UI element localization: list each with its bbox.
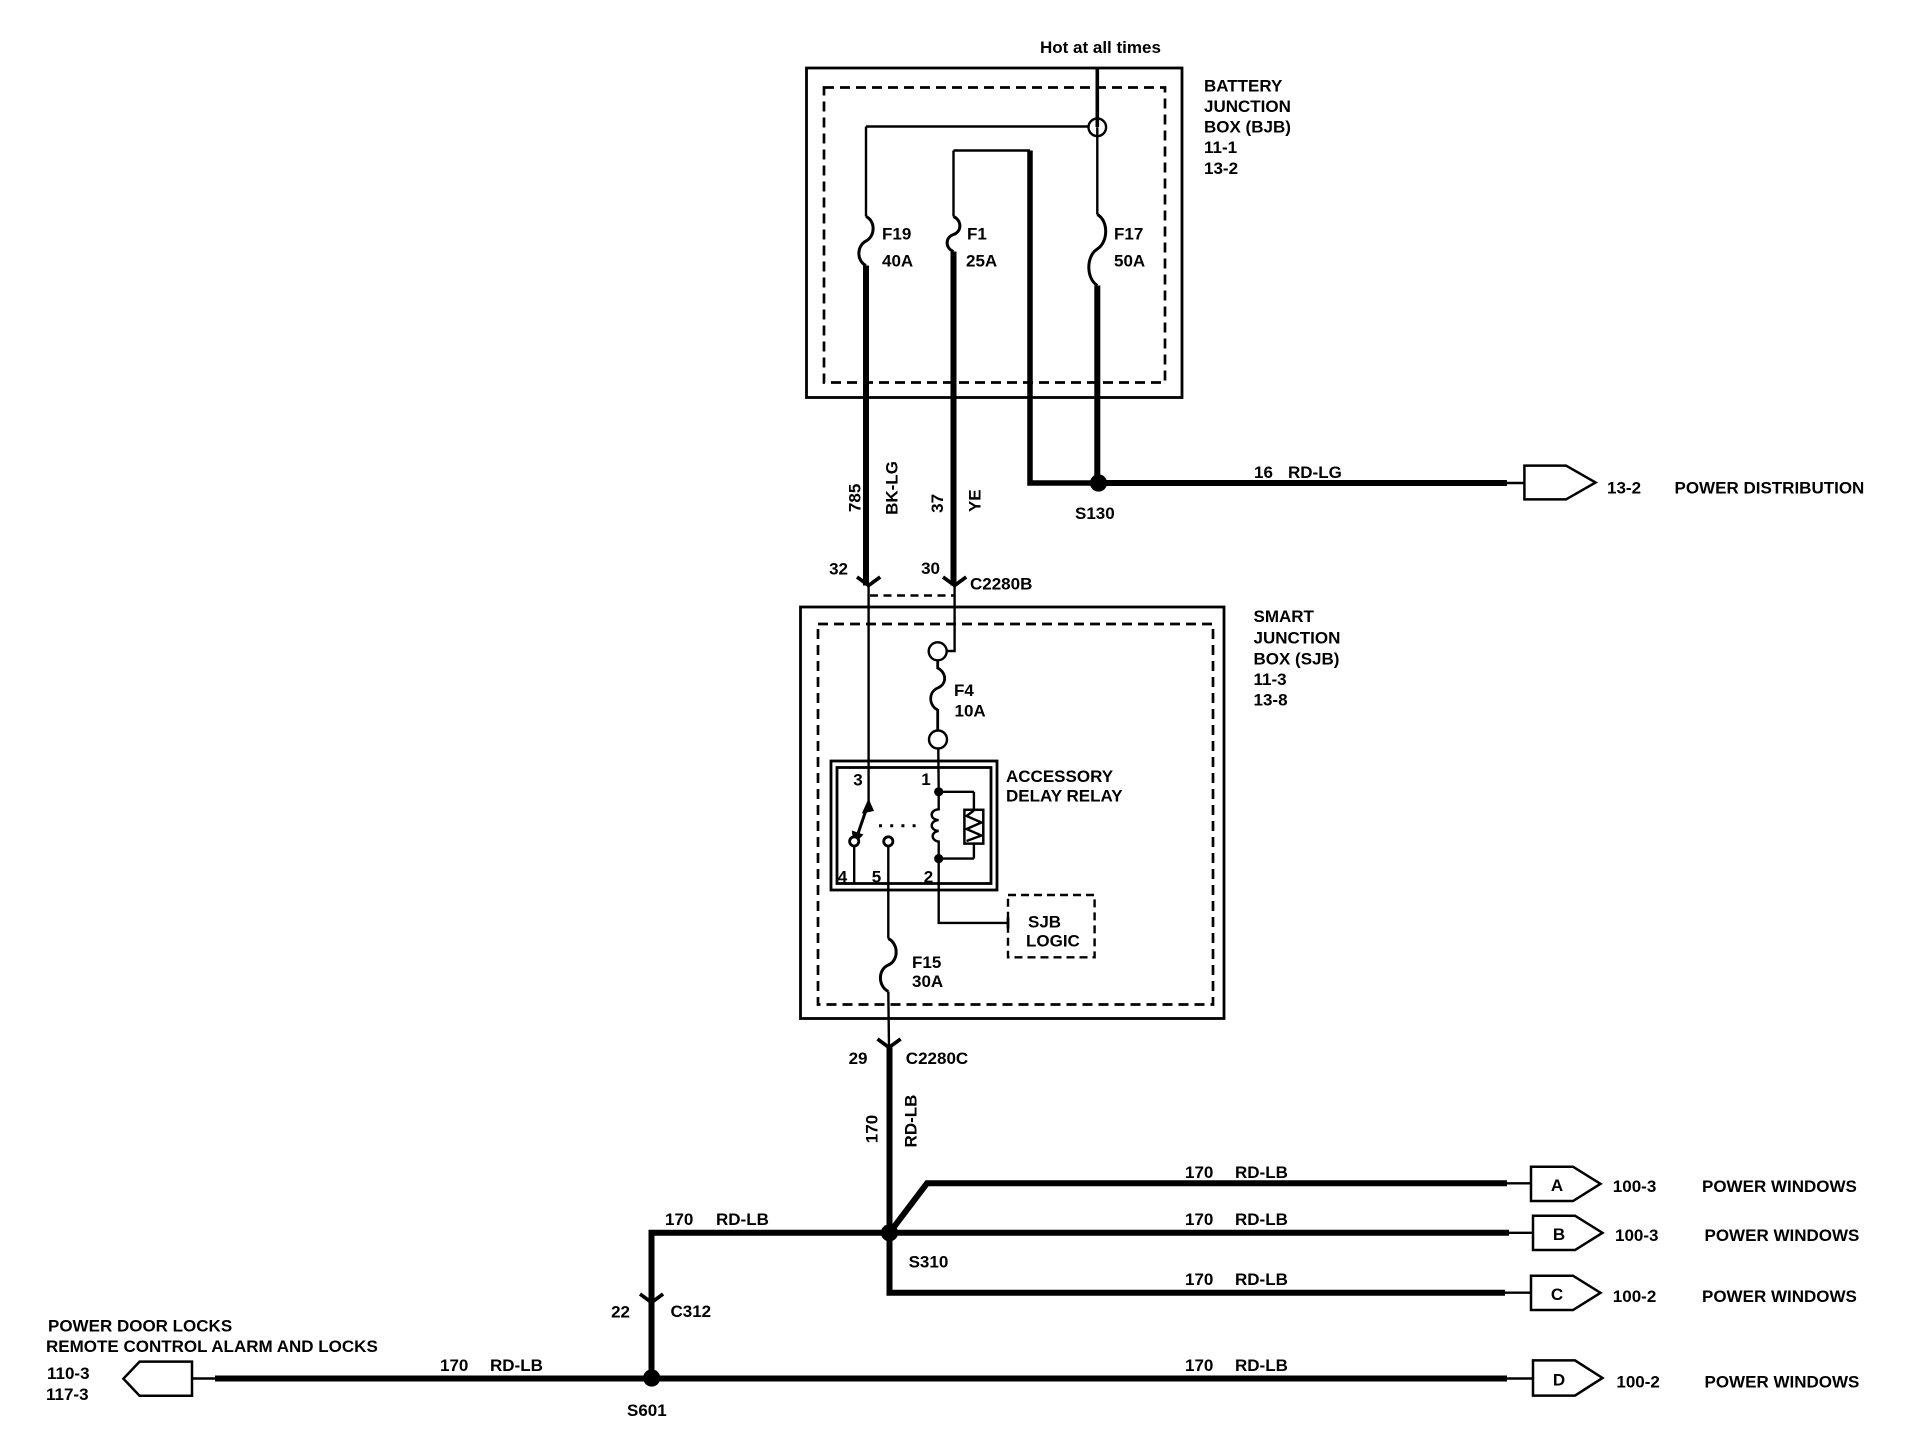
svg-text:BATTERY: BATTERY [1204,77,1283,96]
svg-text:13-2: 13-2 [1204,159,1238,178]
node: wire color YE (rotated) [966,489,985,512]
svg-text:B: B [1553,1225,1565,1244]
svg-text:13-2: 13-2 [1607,479,1641,498]
svg-text:S310: S310 [909,1253,949,1272]
svg-text:JUNCTION: JUNCTION [1254,629,1341,648]
junction S130 [1075,474,1115,523]
node: wire color RD-LB (rotated) [902,1095,921,1148]
svg-text:25A: 25A [966,252,997,271]
svg-text:5: 5 [872,868,881,887]
svg-text:170: 170 [1185,1210,1213,1229]
connector C2280C pin 29 arrow [849,1039,969,1068]
wire: hot bus down to S130 [1030,151,1099,484]
svg-text:170: 170 [1185,1163,1213,1182]
svg-text:2: 2 [924,868,933,887]
svg-text:Hot at all times: Hot at all times [1040,38,1161,57]
wire: F19 feed vertical [865,127,867,217]
relay coil between pin 1 and pin 2 [932,792,939,859]
svg-text:11-3: 11-3 [1254,670,1287,689]
wire: branch C 170 RD-LB to power windows C [890,1233,1532,1293]
wire: branch A 170 RD-LB to power windows A [890,1183,1532,1233]
svg-text:170: 170 [665,1210,693,1229]
svg-text:29: 29 [849,1049,868,1068]
svg-text:40A: 40A [882,252,913,271]
relay: accessory delay relay inner box [837,768,991,884]
svg-text:F15: F15 [912,953,941,972]
relay actuation dotted link [879,824,923,827]
wire: BJB internal bus horizontal to F19 [866,125,1089,127]
svg-text:F1: F1 [967,225,987,244]
svg-text:32: 32 [829,560,848,579]
node: 100-2 POWER WINDOWS label (C) [1613,1287,1857,1306]
svg-text:S130: S130 [1075,504,1115,523]
fuse F1 25A [947,217,960,252]
relay: accessory delay relay outer box [831,761,997,890]
node: Hot at all times label [1040,38,1161,57]
connector C2280B pin 30 arrow [921,559,966,586]
resistor: relay parallel resistor [939,792,984,859]
smart junction box SJB inner dashed box [818,624,1213,1005]
wire: 170 RD-LB main feed down to S310 [887,1048,893,1233]
node: relay pin 3 label [853,771,862,790]
wire: relay pin 2 to SJB LOGIC [939,859,1008,929]
node: off-page connector to power door locks (left) [123,1362,192,1396]
node: BJB label BATTERY JUNCTION BOX (BJB) 11-1 13-2 [1204,77,1291,179]
node: relay pin 4 label [838,868,848,887]
node: wire label 170 RD-LB (left arm) [665,1210,769,1229]
svg-text:S601: S601 [627,1401,667,1420]
node: wire number 170 (rotated) [863,1115,882,1143]
svg-text:785: 785 [846,484,865,512]
node: relay pin 5 contact circle [884,837,893,846]
svg-text:YE: YE [966,489,985,512]
wire: 170 RD-LB from power door locks through S601 to connector D [192,1377,1533,1379]
svg-text:DELAY RELAY: DELAY RELAY [1006,787,1123,806]
node: 100-2 POWER WINDOWS label (D) [1616,1373,1859,1392]
svg-text:16: 16 [1254,463,1273,482]
node: F1 label [966,225,997,271]
svg-text:170: 170 [440,1356,468,1375]
node: POWER DOOR LOCKS destination label [46,1317,378,1405]
svg-text:1: 1 [921,770,930,789]
node: F4 top terminal circle [929,642,947,660]
svg-text:SJB: SJB [1028,913,1061,932]
node: connector D to power windows [1533,1360,1603,1395]
svg-text:170: 170 [863,1115,882,1143]
svg-text:RD-LB: RD-LB [1235,1270,1288,1289]
svg-text:JUNCTION: JUNCTION [1204,97,1291,116]
svg-text:170: 170 [1185,1356,1213,1375]
wire: F15 output down to C2280C [887,992,890,1048]
wire: F17 output down to S130 [1094,286,1100,484]
smart junction box SJB outer box [801,607,1225,1019]
svg-text:RD-LB: RD-LB [716,1210,769,1229]
wire: F1 feed vertical [952,151,954,217]
fuse F15 30A [880,939,896,992]
svg-text:RD-LB: RD-LB [902,1095,921,1148]
svg-text:SMART: SMART [1254,607,1315,626]
node: wire label 170 RD-LB (branch C) [1185,1270,1288,1289]
svg-text:100-3: 100-3 [1615,1226,1658,1245]
node: F19 label [882,225,913,271]
connector C312 pin 22 arrow [611,1294,711,1322]
node: relay pin 4 contact circle [850,837,859,846]
wire: F4 output down to relay pin 1 [937,749,940,792]
node: SJB LOGIC dashed box [1008,895,1095,957]
svg-text:3: 3 [853,771,862,790]
node: connector C to power windows [1531,1276,1601,1310]
node: ACCESSORY DELAY RELAY label [1006,767,1123,806]
svg-text:POWER WINDOWS: POWER WINDOWS [1705,1226,1860,1245]
svg-text:F19: F19 [882,225,911,244]
svg-text:170: 170 [1185,1270,1213,1289]
svg-text:C2280C: C2280C [906,1049,968,1068]
svg-text:A: A [1551,1176,1563,1195]
node: wire color BK-LG (rotated) [883,461,902,515]
svg-text:30: 30 [921,559,940,578]
relay switch blade pin 3 to pin 4 [852,799,874,846]
node: connector B to power windows [1533,1216,1603,1250]
fuse F17 50A [1089,215,1106,286]
node: wire label 170 RD-LB (left of S601) [440,1356,543,1375]
node: 13-2 POWER DISTRIBUTION label [1607,479,1864,498]
svg-text:RD-LB: RD-LB [490,1356,543,1375]
svg-text:RD-LG: RD-LG [1288,463,1342,482]
svg-text:10A: 10A [955,702,986,721]
svg-text:RD-LB: RD-LB [1235,1163,1288,1182]
svg-text:22: 22 [611,1303,630,1322]
node: F17 label [1114,225,1145,271]
connector C2280B dashed boundary [870,575,1032,596]
wire: S310 left arm 170 RD-LB down to S601 [652,1233,890,1378]
node: F15 label [912,953,943,991]
fuse F19 40A [859,217,873,266]
node: relay pin 2 junction dot [934,854,943,863]
node: wire label 16 RD-LG [1254,463,1342,482]
node: wire label 170 RD-LB (branch D) [1185,1356,1288,1375]
battery junction box BJB inner dashed box [824,88,1165,383]
svg-text:F4: F4 [954,681,974,700]
svg-text:13-8: 13-8 [1254,691,1288,710]
svg-text:30A: 30A [912,972,943,991]
svg-text:D: D [1553,1371,1565,1390]
node: relay pin 2 label [924,868,933,887]
node: 100-3 POWER WINDOWS label (B) [1615,1226,1859,1245]
node: relay pin 5 label [872,868,881,887]
node: connector A to power windows [1531,1167,1601,1201]
node: F4 label [954,681,986,721]
fuse F4 10A [931,660,945,730]
wire: F1 top horizontal to hot bus [954,149,1031,151]
svg-text:C: C [1551,1285,1563,1304]
svg-text:110-3: 110-3 [47,1364,90,1383]
svg-text:4: 4 [838,868,848,887]
connector C2280B pin 32 arrow [829,560,880,586]
node: BJB internal connector circle [1089,119,1107,137]
svg-text:POWER WINDOWS: POWER WINDOWS [1702,1287,1857,1306]
svg-text:REMOTE CONTROL ALARM AND LOCKS: REMOTE CONTROL ALARM AND LOCKS [46,1337,378,1356]
wire: pin 32 lead down to relay pin 3 [867,586,869,804]
node: SJB label SMART JUNCTION BOX (SJB) 11-3 13-8 [1254,607,1341,710]
junction S310 [881,1224,948,1271]
node: wire label 170 RD-LB (branch A) [1185,1163,1288,1182]
svg-text:POWER DOOR LOCKS: POWER DOOR LOCKS [48,1317,232,1336]
wire: relay pin 5 down to F15 [887,846,889,939]
svg-text:C312: C312 [671,1302,712,1321]
svg-text:RD-LB: RD-LB [1235,1210,1288,1229]
node: relay pin 1 label [921,770,930,789]
node: wire label 170 RD-LB (branch B) [1185,1210,1288,1229]
svg-text:100-3: 100-3 [1613,1177,1656,1196]
svg-text:BOX (SJB): BOX (SJB) [1254,650,1340,669]
wire: F19 output (785 BK-LG) down to C2280B pin 32 [863,266,869,586]
svg-text:11-1: 11-1 [1204,138,1237,157]
svg-text:RD-LB: RD-LB [1235,1356,1288,1375]
node: wire number 785 (rotated) [846,484,865,512]
svg-text:LOGIC: LOGIC [1026,932,1080,951]
wire: relay pin 4 stub [853,846,855,884]
battery junction box BJB outer box [807,68,1183,398]
node: 100-3 POWER WINDOWS label (A) [1613,1177,1857,1196]
node: off-page connector 13-2 POWER DISTRIBUTION [1524,466,1595,500]
svg-text:POWER DISTRIBUTION: POWER DISTRIBUTION [1675,479,1865,498]
svg-text:POWER WINDOWS: POWER WINDOWS [1705,1373,1860,1392]
node: relay pin 1 junction dot [934,787,943,796]
junction S601 [627,1369,667,1420]
svg-text:BOX (BJB): BOX (BJB) [1204,118,1291,137]
node: wire number 37 (rotated) [928,494,947,513]
wire: pin 30 lead down and left to F4 [947,586,954,652]
svg-text:BK-LG: BK-LG [883,461,902,515]
wire: F1 output (37 YE) down to C2280B pin 30 [951,252,957,586]
wire: hot feed vertical into BJB [1096,68,1100,127]
node: F4 bottom terminal circle [929,731,947,749]
wire: F17 feed below circle [1096,127,1098,214]
svg-text:F17: F17 [1114,225,1143,244]
svg-text:ACCESSORY: ACCESSORY [1006,767,1114,786]
svg-text:50A: 50A [1114,252,1145,271]
svg-text:100-2: 100-2 [1613,1287,1656,1306]
wire: branch B 170 RD-LB to power windows B [890,1230,1534,1236]
svg-text:37: 37 [928,494,947,513]
svg-text:100-2: 100-2 [1616,1373,1659,1392]
svg-text:POWER WINDOWS: POWER WINDOWS [1702,1177,1857,1196]
wire: 16 RD-LG to power distribution [1099,480,1525,486]
svg-text:117-3: 117-3 [46,1385,89,1404]
svg-text:C2280B: C2280B [970,575,1032,594]
